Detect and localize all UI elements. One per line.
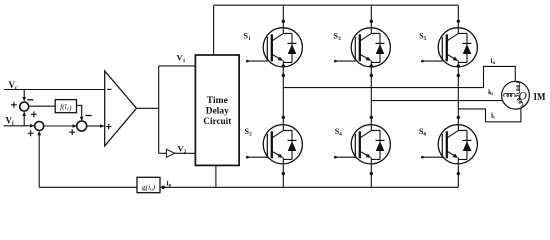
gate lead S6 <box>422 156 442 158</box>
junction dot on mid leg upper S5S6 <box>457 74 460 77</box>
wire Vc branch down to summing junction A <box>23 90 25 99</box>
svg-text:ib: ib <box>488 87 493 97</box>
junction dot after g block <box>162 186 165 189</box>
plus sign inside op-amp <box>106 124 111 129</box>
junction dot below top device S3S4 <box>370 64 373 67</box>
wire summing junction B to summing junction C <box>44 125 74 127</box>
wire phase b from leg2 to motor <box>371 100 502 102</box>
wire collector drop S1S2 <box>282 5 284 28</box>
wire buffer to time delay box <box>175 152 196 154</box>
wire time delay box top pin <box>213 5 215 55</box>
plus sign below-left of summing junction B <box>28 130 34 136</box>
gate lead S5 <box>422 60 442 62</box>
wire mid leg S1S2 <box>282 67 284 125</box>
svg-text:S2: S2 <box>245 127 252 138</box>
summing junction A <box>20 102 29 111</box>
wire collector drop S3S4 <box>370 5 372 28</box>
wire phase c from leg3 to motor <box>458 108 521 122</box>
svg-text:ia: ia <box>491 56 496 66</box>
summing junction C <box>77 121 87 131</box>
block U1 time delay circuit <box>195 55 239 165</box>
wire phase a from leg1 to motor <box>283 66 515 87</box>
wire bottom rail right segment <box>160 186 458 188</box>
transistor S5 IGBT with antiparallel diode <box>438 28 477 67</box>
wire emitter drop S5S6 <box>457 164 459 187</box>
wire Vc to op-amp inverting input <box>4 89 105 91</box>
gate lead S2 <box>247 156 267 158</box>
junction dot on mid leg lower S5S6 <box>457 116 460 119</box>
plus sign left of summing junction A <box>11 102 17 108</box>
junction dot on mid leg lower S3S4 <box>370 116 373 119</box>
plus sign at summing junction B left input <box>31 111 37 117</box>
junction dot above bottom device S5S6 <box>457 127 460 130</box>
svg-text:IM: IM <box>534 92 546 103</box>
junction dot on collector drop S3S4 <box>370 20 373 23</box>
summing junction B <box>35 122 44 131</box>
junction dot on emitter drop S1S2 <box>282 172 285 175</box>
block g(io) feedback <box>137 177 160 192</box>
minus sign at summing junction A top input <box>27 99 33 101</box>
svg-text:S5: S5 <box>419 31 426 42</box>
svg-text:S3: S3 <box>334 31 341 42</box>
junction dot on mid leg upper S3S4 <box>370 74 373 77</box>
wire V1 into time delay box <box>159 65 196 67</box>
wire collector drop S5S6 <box>457 5 459 28</box>
transistor S1 IGBT with antiparallel diode <box>263 28 302 67</box>
svg-text:O: O <box>519 90 528 102</box>
transistor S4 IGBT with antiparallel diode <box>351 125 390 164</box>
motor stator coil left <box>504 93 516 96</box>
transistor S2 IGBT with antiparallel diode <box>263 125 302 164</box>
junction dot on collector drop S1S2 <box>282 20 285 23</box>
junction dot on emitter drop S5S6 <box>457 172 460 175</box>
block f(ic) <box>55 100 76 113</box>
junction dot below top device S5S6 <box>457 64 460 67</box>
minus sign inside op-amp <box>107 88 111 90</box>
svg-text:Time: Time <box>207 96 228 106</box>
junction dot above bottom device S3S4 <box>370 127 373 130</box>
gate lead S4 <box>335 156 355 158</box>
wire Vi branch up to summing junction A <box>23 115 25 126</box>
svg-text:Delay: Delay <box>206 107 229 117</box>
wire output branch vertical <box>158 66 160 153</box>
wire emitter drop S1S2 <box>282 164 284 187</box>
svg-text:f(îc): f(îc) <box>60 102 72 112</box>
buffer triangle V2 <box>166 149 174 157</box>
minus sign at summing junction C top input <box>85 115 91 117</box>
op-amp comparator <box>105 71 137 146</box>
wire top dc bus <box>214 4 459 6</box>
wire time delay box bottom pin <box>215 165 217 187</box>
wire summing junction A to f-block <box>29 105 56 107</box>
wire to inverter buffer V2 <box>159 152 167 154</box>
junction dot on collector drop S5S6 <box>457 20 460 23</box>
junction dot below top device S1S2 <box>282 64 285 67</box>
wire summing junction C to op-amp noninverting input <box>86 125 101 127</box>
motor stator coil bottom <box>516 95 523 106</box>
junction dot on mid leg upper S1S2 <box>282 74 285 77</box>
wire mid leg S5S6 <box>457 67 459 125</box>
gate lead S1 <box>247 60 267 62</box>
transistor S6 IGBT with antiparallel diode <box>438 125 477 164</box>
wire f-block to summing junction C <box>77 105 82 118</box>
svg-text:S6: S6 <box>419 127 426 138</box>
svg-text:Circuit: Circuit <box>203 117 232 127</box>
wire bottom rail left segment <box>39 186 137 188</box>
motor stator coil top <box>517 82 520 94</box>
svg-text:ic: ic <box>491 111 496 121</box>
transistor S3 IGBT with antiparallel diode <box>351 28 390 67</box>
wire op-amp output <box>137 107 159 109</box>
svg-text:S4: S4 <box>335 127 342 138</box>
wire Vi to summing junction B <box>4 125 32 127</box>
svg-text:V1: V1 <box>177 53 186 65</box>
wire emitter drop S3S4 <box>370 164 372 187</box>
svg-text:io: io <box>167 179 172 189</box>
wire feedback riser into summing junction B <box>38 134 40 188</box>
motor IM circle <box>502 81 530 109</box>
gate lead S3 <box>335 60 355 62</box>
junction dot on emitter drop S3S4 <box>370 172 373 175</box>
svg-text:g(io): g(io) <box>142 182 156 192</box>
junction dot above bottom device S1S2 <box>282 127 285 130</box>
wire mid leg S3S4 <box>370 67 372 125</box>
junction dot on mid leg lower S1S2 <box>282 116 285 119</box>
plus sign at summing junction C left input <box>69 129 75 135</box>
svg-text:S1: S1 <box>244 31 251 42</box>
